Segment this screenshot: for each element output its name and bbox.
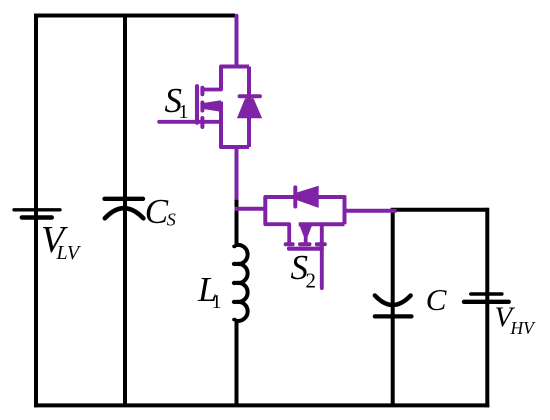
transistor S1 gate bar <box>195 86 199 123</box>
capacitor C straight plate <box>375 314 412 318</box>
wire left rail (VLV branch) <box>34 14 38 408</box>
capacitor C curved plate <box>375 296 411 306</box>
wire right rail (VHV branch) <box>485 208 489 408</box>
transistor S1 package <box>221 67 249 148</box>
inductor L1 coil <box>237 245 248 321</box>
wire S2 to right purple <box>343 209 397 213</box>
svg-text:2: 2 <box>306 269 317 293</box>
battery VLV long plate <box>14 208 60 211</box>
transistor S2 package <box>265 197 344 224</box>
transistor S2 channel segments <box>286 242 325 246</box>
wire right mid rail black <box>394 208 487 212</box>
transistor S1 gate lead / source stub <box>159 120 221 124</box>
svg-text:LV: LV <box>56 242 82 264</box>
svg-text:1: 1 <box>179 101 189 123</box>
capacitor CS straight plate <box>105 197 144 201</box>
transistor S1 top stub (drain) <box>202 88 221 92</box>
wire inductor branch upper <box>235 200 239 246</box>
svg-text:C: C <box>426 282 447 317</box>
wire S1 to node purple <box>235 147 239 200</box>
svg-text:1: 1 <box>212 291 222 313</box>
transistor S2 gate lead / source stub <box>320 224 324 288</box>
transistor S1 body arrow <box>203 100 220 111</box>
wire inductor branch lower <box>235 320 239 405</box>
svg-text:S: S <box>167 209 176 229</box>
transistor S2 gate bar <box>289 247 322 251</box>
diode D1 triangle <box>237 98 262 118</box>
battery VLV short plate <box>22 215 52 219</box>
inductor L1 junction curls <box>232 245 236 249</box>
wire node to S2 purple <box>235 207 268 211</box>
wire CS branch <box>123 16 127 406</box>
capacitor CS curved plate <box>105 208 144 218</box>
wire capacitor C branch <box>391 208 395 406</box>
battery VHV long plate <box>464 300 509 304</box>
transistor S1 channel segments <box>200 88 204 127</box>
diode D2 triangle <box>297 186 319 208</box>
battery VHV short plate <box>471 292 502 295</box>
transistor S2 body arrow <box>299 225 312 236</box>
transistor S2 left stub (drain) <box>265 224 289 244</box>
diode D2 cathode bar <box>293 187 297 206</box>
wire bottom rail (common negative) <box>34 403 489 407</box>
transistor S2 right rail piece (source) <box>299 222 345 226</box>
svg-text:C: C <box>145 192 169 231</box>
wire S1 top purple <box>235 16 239 67</box>
svg-text:HV: HV <box>510 318 537 338</box>
diode D1 cathode bar <box>240 94 260 98</box>
wire top rail (VLV+ to S1 drain) <box>34 14 235 18</box>
